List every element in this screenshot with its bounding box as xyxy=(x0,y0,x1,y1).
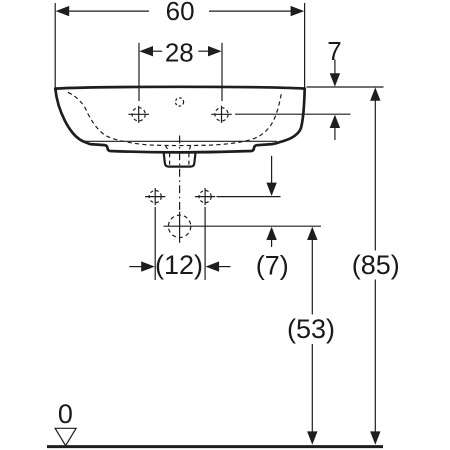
svg-text:60: 60 xyxy=(166,0,195,26)
svg-text:(85): (85) xyxy=(352,250,400,280)
svg-text:(12): (12) xyxy=(155,250,203,280)
svg-text:28: 28 xyxy=(165,37,194,67)
svg-text:0: 0 xyxy=(58,399,73,429)
svg-text:(7): (7) xyxy=(256,251,289,281)
svg-text:7: 7 xyxy=(327,36,341,66)
svg-text:(53): (53) xyxy=(287,314,335,344)
